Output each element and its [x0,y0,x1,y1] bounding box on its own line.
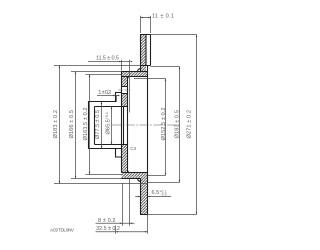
dim 11 +-0.1 top [140,16,151,33]
arrow dia183L top [59,66,61,69]
fillet top bar to plate [138,69,141,72]
arrow dim 8 left [120,223,123,225]
profile outlines [89,35,151,215]
arrow dia163.5 bottom [89,172,91,175]
svg-text:Ø183 ± 0.2: Ø183 ± 0.2 [53,110,59,139]
dim 8 +-0.2 bottom [96,179,135,226]
arrow dim 32.5 left [116,231,119,233]
hatch fill: hub web between bolt hole and bore [122,94,128,107]
dia 77.5 +-0.5 left [101,102,103,149]
hatch fill: hub web upper (above bolt hole) [122,77,128,87]
arrow dia152.5 bottom [165,173,167,176]
svg-text:8 ± 0.2: 8 ± 0.2 [98,218,116,224]
arrow dim 11.5 right [130,61,133,63]
hatch fill: hub web lower (below bore) [122,145,128,173]
arrow dim 1 left [113,95,116,97]
dia 65.5 left [111,107,113,145]
arrow dim 11 right [148,17,151,19]
arrow dia271 top [196,35,198,38]
dim 1 +-0.2 [97,96,120,102]
dimension texts [50,13,193,232]
arrow dia163.5 top [89,75,91,78]
hub web right edge [127,77,129,173]
svg-text:11.5 ± 0.5: 11.5 ± 0.5 [96,56,119,62]
dim 6.5 right of bottom bar [135,196,171,198]
dia 183 +-0.2 left [54,66,148,184]
hatch fill: top hat plate [122,72,148,77]
svg-text:AC9 TDL 9NV: AC9 TDL 9NV [50,228,75,233]
bolt hole edges through web [122,87,128,94]
svg-text:Ø152.5 ± 0.2: Ø152.5 ± 0.2 [161,108,167,141]
arrow dim 6.5 right [148,196,151,198]
svg-text:Ø271 ± 0.2: Ø271 ± 0.2 [187,110,193,139]
svg-text:32.5 ± 0.2: 32.5 ± 0.2 [96,226,120,232]
wheel contact step bottom [116,149,122,158]
svg-text:6.5+0.1-0.3: 6.5+0.1-0.3 [152,189,167,196]
arrow dim 1 right [117,95,120,97]
arrow dia166 top [75,72,77,75]
wheel contact step top [116,93,122,102]
arrow dim 6.5 left [138,196,141,198]
hatch fill: bottom hat plate [122,173,148,179]
dia 166 +-0.5 left [71,72,122,179]
arrow dia77.5 bottom [101,146,103,149]
dia 183 +-0.5 right [148,67,180,183]
arrow dia183R bottom [179,180,181,183]
fillet bottom bar to plate [138,179,141,182]
centre bore box [95,107,128,145]
fillet web to bottom plate [128,170,131,173]
arrow dia65.5 bottom [111,142,113,145]
svg-text:11 ± 0.1: 11 ± 0.1 [152,13,174,19]
arrow dim 8 right [130,223,133,225]
arrow dia166 bottom [75,176,77,179]
dia 152.5 +-0.2 right [134,79,166,176]
arrow dia271 bottom [196,212,198,215]
arrow dia152.5 top [165,79,167,82]
svg-text:Ø163.5 ± 0.2: Ø163.5 ± 0.2 [83,108,89,141]
svg-text:Ø183 ± 0.5: Ø183 ± 0.5 [174,110,180,139]
hatch fill: bottom friction ring bar [141,179,148,215]
dia 271 +-0.2 right [148,35,197,215]
bolt hole centreline [118,89,131,91]
pilot collar outer box [89,102,122,149]
svg-text:1 ± 0.2: 1 ± 0.2 [98,90,111,96]
fillet web to top plate [128,77,131,80]
dim 32.5 +-0.2 bottom [96,215,148,234]
dimension lines [54,16,197,234]
svg-text:Ø166 ± 0.5: Ø166 ± 0.5 [69,110,75,139]
arrow dia183L bottom [59,181,61,184]
bottom hat plate [122,173,148,179]
dia 163.5 +-0.2 left [86,75,122,175]
main centreline [112,124,180,126]
hatch fill: top friction ring bar [141,35,147,72]
arrow dia183R top [179,67,181,70]
arrow dim 11.5 left [119,61,122,63]
hat plate top [122,72,148,77]
arrowheads [59,17,198,233]
arrow dia65.5 top [111,107,113,110]
arrow dim 11 left [141,17,144,19]
friction ring top bar outline [141,35,151,173]
hub web left edge [121,72,123,173]
arrow dia77.5 top [101,102,103,105]
arrow dim 32.5 right [145,231,148,233]
svg-text:Ø65.5+0.1: Ø65.5+0.1 [105,112,112,134]
bottom friction ring bar [141,173,148,215]
dim 11.5 +-0.5 [88,60,130,113]
svg-text:C3: C3 [130,146,136,151]
svg-text:Ø77.5 ± 0.5: Ø77.5 ± 0.5 [95,110,101,139]
